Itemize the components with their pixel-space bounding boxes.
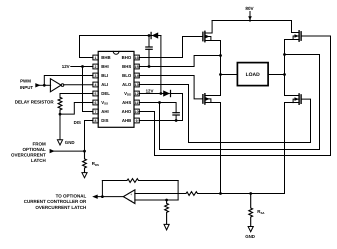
label DELAY RESISTOR xyxy=(15,99,55,104)
diode D1 bootstrap B xyxy=(149,32,161,38)
load box xyxy=(237,63,268,86)
svg-text:ALI: ALI xyxy=(101,82,108,87)
svg-text:PWM: PWM xyxy=(20,79,31,84)
wire AHS pin11 to cap C2 xyxy=(139,103,176,113)
svg-text:+: + xyxy=(130,193,132,197)
svg-text:13: 13 xyxy=(135,83,139,87)
resistor R series to op-amp xyxy=(135,192,199,196)
pin 2 box xyxy=(93,64,98,69)
node shunt xyxy=(165,199,168,202)
wire inverter out to ALI pin4 xyxy=(64,84,93,86)
svg-text:OVERCURRENT LATCH: OVERCURRENT LATCH xyxy=(35,205,86,210)
svg-text:2: 2 xyxy=(95,65,97,69)
wire 12V to BHI pin2 xyxy=(71,66,93,68)
arrow down below RDS xyxy=(82,173,87,178)
node C2/AHB xyxy=(175,119,178,122)
transistor Q4 right low-side xyxy=(285,94,302,104)
svg-text:DEL: DEL xyxy=(101,91,110,96)
node PWM split xyxy=(43,84,46,87)
transistor Q2 left low-side xyxy=(203,94,221,104)
svg-text:15: 15 xyxy=(135,65,139,69)
svg-text:ALO: ALO xyxy=(122,82,132,87)
pin label BHS xyxy=(122,64,131,69)
transistor Q3 right high-side xyxy=(285,21,302,42)
pin 13 box xyxy=(134,82,139,87)
wire op-amp lower input xyxy=(135,199,178,201)
label GND bottom xyxy=(245,234,255,239)
svg-text:VSS: VSS xyxy=(101,100,108,106)
resistor shunt to ground xyxy=(165,200,169,224)
svg-text:LATCH: LATCH xyxy=(31,158,46,163)
resistor RSA sense xyxy=(249,194,253,227)
svg-text:6: 6 xyxy=(95,101,97,105)
svg-text:11: 11 xyxy=(135,101,139,105)
pin 11 box xyxy=(134,100,139,105)
wire PWM to BLI pin3 xyxy=(44,76,93,86)
node phase B / LOAD xyxy=(219,73,222,76)
node AHS branch xyxy=(158,101,161,104)
resistor feedback xyxy=(102,179,178,183)
wire D1 anode to VDD riser xyxy=(160,36,162,94)
svg-text:INPUT: INPUT xyxy=(20,85,33,90)
wire latch to DIS node xyxy=(54,150,85,152)
wire load right xyxy=(268,74,284,76)
svg-text:DIS: DIS xyxy=(101,118,108,123)
pin 3 box xyxy=(93,73,98,78)
wire 12V down to AHI pin7 xyxy=(83,67,93,112)
pin label BHB xyxy=(101,55,110,60)
svg-text:9: 9 xyxy=(136,119,138,123)
wire DIS pin8 down to latch node xyxy=(85,121,93,152)
node sense / RSA xyxy=(249,192,252,195)
svg-text:GND: GND xyxy=(245,234,255,239)
IC U1 full-bridge driver (16-pin DIP body) xyxy=(98,51,134,127)
pin 7 box xyxy=(93,109,98,114)
node phase B / BHS xyxy=(219,54,222,57)
pin 6 box xyxy=(93,100,98,105)
svg-text:10: 10 xyxy=(135,110,139,114)
capacitor C2 bootstrap A xyxy=(173,113,179,121)
pin label BLI xyxy=(101,73,108,78)
svg-text:80V: 80V xyxy=(245,6,254,11)
transistor Q1 left high-side xyxy=(203,21,221,42)
node 80V rail xyxy=(249,19,251,21)
svg-text:AHB: AHB xyxy=(122,118,131,123)
wire 80V supply arrow xyxy=(248,12,252,21)
svg-text:OPTIONAL: OPTIONAL xyxy=(23,147,47,152)
svg-text:BLI: BLI xyxy=(101,73,108,78)
label 12V right xyxy=(146,89,154,94)
pin 1 box xyxy=(93,55,98,60)
inverter U2 xyxy=(50,79,63,92)
svg-text:4: 4 xyxy=(95,83,97,87)
svg-text:BHO: BHO xyxy=(122,55,132,60)
wire AHO pin10 to right high gate xyxy=(139,36,330,156)
pin 14 box xyxy=(134,73,139,78)
ground symbol bottom right xyxy=(248,227,253,232)
node output/feedback xyxy=(101,195,104,198)
svg-text:OVERCURRENT: OVERCURRENT xyxy=(11,152,46,157)
pin 5 box xyxy=(93,91,98,96)
svg-text:5: 5 xyxy=(95,92,97,96)
pin label AHB xyxy=(122,118,131,123)
node DIS/latch xyxy=(83,150,86,153)
wire BLO pin14 to left low gate xyxy=(139,76,203,99)
svg-text:RDS: RDS xyxy=(92,161,99,167)
wire D2 cathode to AHB pin9 xyxy=(139,94,182,121)
svg-text:VDD: VDD xyxy=(124,91,131,97)
pin label VDD xyxy=(124,91,131,97)
label GND left xyxy=(65,140,75,145)
wire right low source down to sense xyxy=(284,103,286,194)
wire left low source down to sense xyxy=(220,103,222,194)
wire feedback to output node xyxy=(101,181,103,197)
op-amp A1 xyxy=(123,190,135,204)
pin 9 box xyxy=(134,118,139,123)
wire BHO pin16 to left high gate xyxy=(139,37,203,58)
svg-text:1: 1 xyxy=(95,56,97,60)
label 80V xyxy=(245,6,254,11)
label FROM OPTIONAL OVERCURRENT LATCH xyxy=(11,142,46,163)
pin label DIS xyxy=(101,118,108,123)
svg-text:BHI: BHI xyxy=(101,64,108,69)
svg-text:TO OPTIONAL: TO OPTIONAL xyxy=(56,193,87,198)
pin label BHI xyxy=(101,64,108,69)
svg-text:AHS: AHS xyxy=(122,100,131,105)
label RSA xyxy=(257,209,265,215)
pin 10 box xyxy=(134,109,139,114)
ground symbol left xyxy=(57,140,62,145)
pin label AHO xyxy=(122,109,132,114)
node phase A / AHS xyxy=(283,53,286,56)
svg-text:DIS: DIS xyxy=(74,120,81,125)
wire BHB bootstrap loop pin1 to node xyxy=(80,36,150,58)
svg-text:8: 8 xyxy=(95,119,97,123)
svg-text:AHO: AHO xyxy=(122,109,132,114)
arrow from latch xyxy=(50,149,55,153)
svg-text:RSA: RSA xyxy=(257,209,265,215)
svg-text:12: 12 xyxy=(135,92,139,96)
pin 8 box xyxy=(93,118,98,123)
pin 16 box xyxy=(134,55,139,60)
svg-text:3: 3 xyxy=(95,74,97,78)
pin label AHI xyxy=(101,109,108,114)
wire AHS branch to phase A xyxy=(160,55,320,150)
wire DEL pin5 to delay resistor xyxy=(60,94,93,98)
label DIS xyxy=(74,120,81,125)
pin 15 box xyxy=(134,64,139,69)
wire VDD pin12 xyxy=(139,93,163,95)
node 12V branch xyxy=(81,65,84,68)
pin label ALI xyxy=(101,82,108,87)
pin label VSS xyxy=(101,100,108,106)
svg-text:12V: 12V xyxy=(62,64,70,69)
node VDD/boot riser xyxy=(160,92,163,95)
pin label BLO xyxy=(122,73,132,78)
capacitor C1 bootstrap B xyxy=(146,36,152,67)
svg-text:GND: GND xyxy=(65,140,75,145)
wire PWM input to inverter xyxy=(40,84,51,86)
pin 12 box xyxy=(134,91,139,96)
pin label AHS xyxy=(122,100,131,105)
arrow PWM input xyxy=(35,83,40,87)
node phase A / LOAD xyxy=(283,73,286,76)
label PWM INPUT xyxy=(20,79,33,90)
svg-text:12V: 12V xyxy=(146,89,154,94)
label TO OPTIONAL CURRENT CONTROLLER OR OVERCURRENT LATCH xyxy=(24,193,87,210)
wire phase B column upper xyxy=(220,41,222,96)
resistor RDS pulldown xyxy=(83,151,87,173)
wire sense line bottom xyxy=(199,193,285,195)
wire feedback drop xyxy=(177,181,179,201)
label 12V left xyxy=(62,64,70,69)
wire load left xyxy=(221,74,238,76)
svg-text:BHS: BHS xyxy=(122,64,131,69)
node BHB boot xyxy=(148,34,151,37)
wire op-amp output xyxy=(96,196,124,198)
wire to ground xyxy=(59,114,61,140)
resistor delay (RDEL) xyxy=(58,97,62,114)
ground arrow below shunt xyxy=(164,224,169,230)
node VSS/delay/gnd xyxy=(59,113,62,116)
pin label BHO xyxy=(122,55,132,60)
diode D2 bootstrap A xyxy=(163,90,182,96)
label RDS xyxy=(92,161,99,167)
wire phase A column upper xyxy=(284,40,286,96)
svg-text:14: 14 xyxy=(135,74,139,78)
node sense / left column xyxy=(219,192,222,195)
svg-text:FROM: FROM xyxy=(33,142,46,147)
svg-text:7: 7 xyxy=(95,110,97,114)
svg-text:CURRENT CONTROLLER OR: CURRENT CONTROLLER OR xyxy=(24,199,87,204)
svg-text:BHB: BHB xyxy=(101,55,110,60)
svg-text:DELAY RESISTOR: DELAY RESISTOR xyxy=(15,99,55,104)
arrow to controller xyxy=(92,195,98,199)
svg-text:16: 16 xyxy=(135,56,139,60)
wire VSS pin6 staircase to ground node xyxy=(60,103,93,115)
pin 4 box xyxy=(93,82,98,87)
svg-text:LOAD: LOAD xyxy=(246,72,261,78)
svg-text:BLO: BLO xyxy=(122,73,132,78)
wire 80V rail xyxy=(212,20,291,22)
wire BHS pin15 to phase B xyxy=(139,56,220,67)
node C1/BHS xyxy=(148,65,151,68)
pin label DEL xyxy=(101,91,110,96)
svg-text:AHI: AHI xyxy=(101,109,108,114)
pin label ALO xyxy=(122,82,132,87)
wire ALO pin13 to right low gate xyxy=(139,85,310,143)
